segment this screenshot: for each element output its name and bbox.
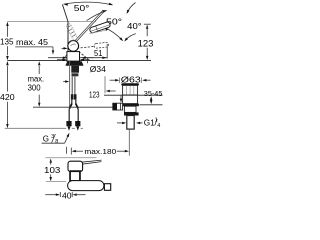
flexible hoses — [69, 100, 72, 121]
dimension 420 — [0, 61, 15, 128]
label G 3/8 — [42, 133, 70, 145]
phantom grip up position — [66, 23, 78, 41]
pull rod — [104, 76, 106, 93]
drain flange — [121, 83, 139, 85]
svg-text:max. 45: max. 45 — [16, 38, 49, 47]
svg-text:8: 8 — [55, 139, 58, 145]
pull rod pointer — [106, 90, 116, 92]
drain body below deck — [123, 95, 138, 103]
side view top reference — [46, 157, 97, 159]
threaded shank — [71, 66, 79, 73]
svg-text:Ø34: Ø34 — [90, 64, 106, 74]
dimension 40 — [45, 192, 85, 201]
angle arc upper right — [127, 3, 136, 15]
svg-text:40: 40 — [62, 192, 72, 200]
rod pointer arrow — [63, 80, 69, 83]
pop-up rod horizontal line — [33, 106, 114, 108]
dimension 123 lever height — [138, 24, 154, 60]
dimension dia 34 — [57, 57, 106, 74]
pop-up rod vertical — [69, 61, 71, 107]
hose junction — [70, 104, 72, 109]
hose connector G3/8 left — [66, 121, 71, 131]
svg-text:4: 4 — [157, 123, 160, 129]
tailpiece — [127, 116, 134, 130]
svg-text:123: 123 — [89, 91, 100, 100]
deck top line (main view) — [7, 60, 151, 62]
svg-text:420: 420 — [0, 93, 15, 102]
hose connector G3/8 right — [75, 121, 80, 131]
wire — [5, 22, 151, 129]
svg-text:G: G — [43, 135, 49, 144]
side view body — [70, 172, 81, 181]
svg-text:51: 51 — [94, 49, 103, 58]
side view mousseur — [104, 184, 110, 191]
ball rod housing — [113, 103, 123, 110]
dimension dia 63 — [110, 76, 151, 85]
angle arc 50 top — [64, 2, 114, 6]
dimension max 300 — [28, 61, 45, 107]
dashed lever horizontal position — [77, 46, 95, 48]
svg-text:50°: 50° — [74, 3, 90, 13]
extension line lever axis — [67, 22, 69, 61]
svg-text:123: 123 — [138, 38, 154, 48]
svg-text:35-45: 35-45 — [144, 89, 163, 98]
faucet ball joint — [68, 41, 79, 52]
svg-text:135: 135 — [0, 38, 14, 47]
dimension max. 45 — [15, 38, 54, 55]
svg-text:max.: max. — [28, 74, 45, 83]
extension line up position — [62, 4, 68, 21]
dimension G1 1/4 — [117, 118, 160, 129]
angle arc 40 upper leader — [104, 27, 123, 41]
svg-text:300: 300 — [28, 83, 42, 92]
dimension max180 — [66, 147, 129, 156]
top max-height reference line — [7, 21, 96, 23]
svg-text:103: 103 — [44, 165, 61, 175]
dashed grip outline — [94, 42, 109, 48]
drain axis extension — [128, 129, 130, 155]
lever rod up position — [64, 10, 105, 58]
supply pipes — [71, 76, 73, 94]
hose nuts — [71, 94, 74, 99]
svg-text:max.180: max.180 — [84, 147, 116, 156]
side view joystick stick — [82, 160, 102, 162]
lever grip — [89, 21, 111, 33]
dashed lever down position — [79, 51, 90, 60]
escutcheon base — [65, 61, 83, 65]
side view handle paddle — [68, 161, 83, 171]
dimension 135 — [0, 22, 14, 60]
dimension 51 — [48, 44, 107, 59]
dimension 35-45 — [144, 89, 163, 104]
svg-text:40°: 40° — [127, 21, 141, 31]
hose end reference line — [5, 127, 66, 129]
side view spout — [68, 181, 104, 191]
dimension 123 rod depth — [89, 91, 122, 103]
angle arc 50-2 — [87, 10, 108, 20]
dimension 103 — [44, 158, 66, 181]
angle arc 40 lower — [124, 34, 136, 42]
faucet body — [67, 52, 80, 62]
pointer at ball — [62, 47, 68, 50]
deck line (drain view) — [104, 94, 163, 96]
